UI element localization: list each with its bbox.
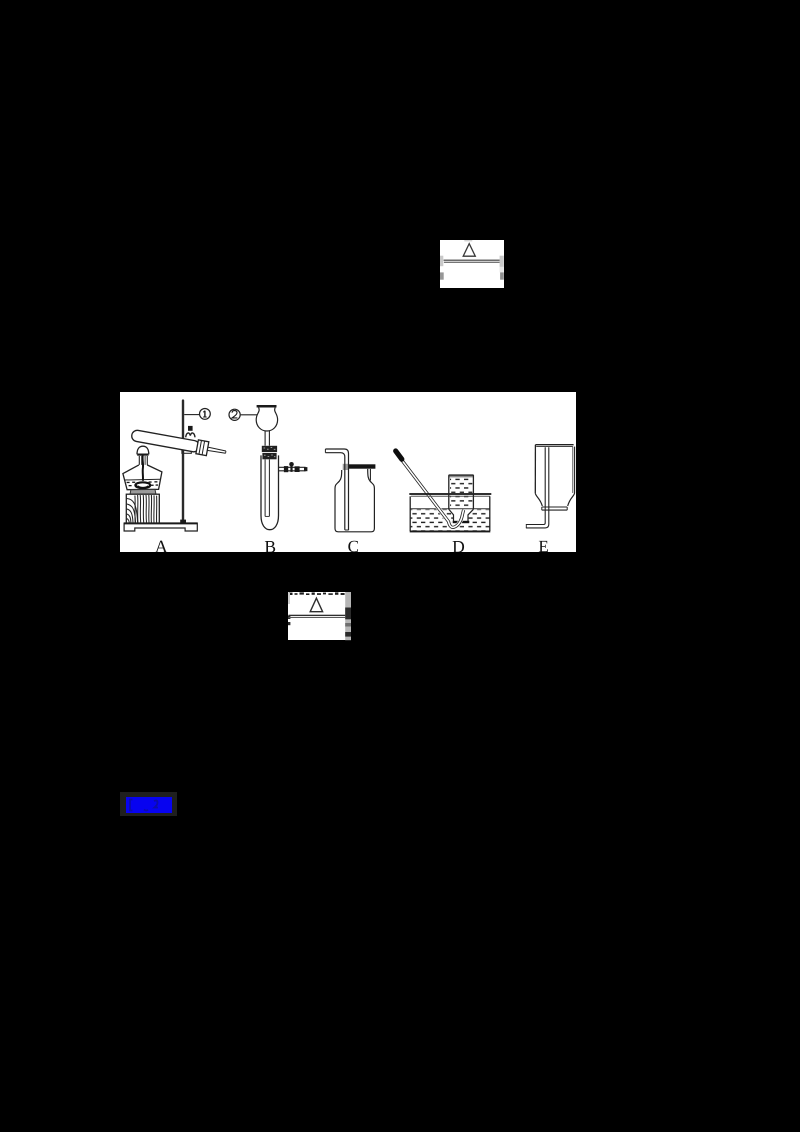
left edge marks [288, 593, 290, 604]
liquid swirl [135, 482, 150, 488]
delivery tube D (into mouth, J-bend) [398, 454, 464, 527]
side arm with stopcock [279, 462, 308, 472]
right edge cut-character marks [500, 255, 504, 266]
lamp foot [130, 489, 156, 494]
test tube B [261, 455, 279, 529]
wood block with grain [126, 494, 159, 523]
stand base [124, 523, 197, 531]
delivery tube from stopper [208, 447, 226, 451]
svg-text:D: D [452, 536, 465, 552]
lid grommet [343, 463, 349, 469]
label 2 circle [229, 409, 240, 420]
svg-text:C: C [348, 537, 359, 553]
clamp on rod [182, 425, 195, 452]
trough body [410, 496, 491, 532]
left edge cut-character marks [440, 255, 443, 266]
bottle C [335, 468, 374, 531]
rod collar [180, 519, 186, 522]
blue highlighted label [120, 792, 177, 816]
equation image 2 (Delta over double-line, cropped with edge artifacts) [288, 592, 351, 640]
svg-text:B: B [264, 536, 276, 552]
right grey strip [345, 592, 351, 640]
delta triangle [463, 243, 475, 256]
trough rim [409, 493, 491, 496]
label 2 leader [241, 413, 259, 415]
delivery tube C (bent) [325, 449, 348, 530]
glyph stroke [144, 810, 148, 811]
equals double line [444, 259, 500, 260]
bottle neck white interior [449, 509, 474, 523]
inverted collecting bottle [449, 475, 474, 521]
bottle E [535, 444, 574, 505]
alcohol lamp cap [137, 446, 149, 466]
funnel stem inside tube [265, 459, 269, 516]
rubber tip of tube [396, 451, 402, 459]
bottle E mouth lip [542, 507, 567, 510]
test tube (tilted) with stopper and delivery tube [131, 428, 227, 459]
delivery tube E (vertical with left elbow) [526, 447, 549, 527]
bottle mouth bar [453, 520, 470, 522]
stopper [196, 439, 209, 455]
equals double line [289, 615, 346, 616]
label 1 circle [200, 408, 211, 419]
equation image 1 (Delta over double-line, cropped) [440, 240, 504, 289]
trough water line [410, 507, 490, 509]
rubber stopper (hatched) [262, 445, 277, 459]
apparatus figure A-E [120, 392, 576, 553]
left bracket mark [130, 800, 133, 811]
svg-text:A: A [155, 536, 168, 552]
glyph squiggle [154, 801, 158, 808]
alcohol lamp body [123, 464, 162, 489]
lid bar [349, 464, 375, 468]
trough water dashes [411, 509, 490, 530]
ball funnel rim [257, 404, 277, 407]
top edge grey tick [464, 240, 472, 241]
bottle water dashes [450, 477, 472, 508]
top cut-text dashes [289, 592, 345, 595]
ball funnel bulb [256, 407, 277, 431]
label 1 leader [184, 413, 199, 415]
wick [142, 455, 145, 480]
funnel stem (above stopper) [265, 431, 269, 446]
delta triangle [310, 598, 322, 612]
svg-text:E: E [538, 537, 548, 553]
iron stand rod [182, 400, 184, 522]
